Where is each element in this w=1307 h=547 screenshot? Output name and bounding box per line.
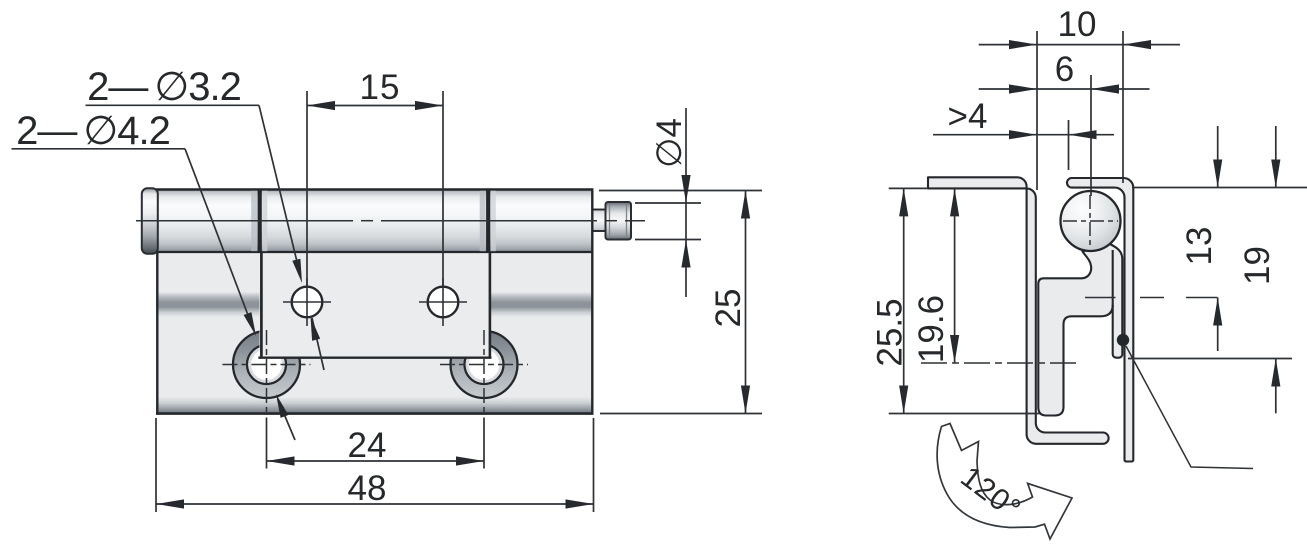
svg-text:19: 19 [1238,246,1277,285]
svg-text:>4: >4 [948,97,988,136]
svg-text:2— ∅4.2: 2— ∅4.2 [16,109,170,153]
svg-text:19.6: 19.6 [912,295,951,363]
svg-text:10: 10 [1058,5,1097,44]
svg-text:24: 24 [348,426,387,465]
svg-text:2— ∅3.2: 2— ∅3.2 [87,65,241,109]
svg-text:13: 13 [1180,227,1219,266]
svg-text:25.5: 25.5 [871,298,910,366]
svg-text:25: 25 [709,289,748,328]
svg-text:6: 6 [1055,50,1074,89]
svg-text:15: 15 [360,68,401,107]
svg-text:∅4: ∅4 [650,118,689,168]
svg-text:48: 48 [348,469,387,508]
